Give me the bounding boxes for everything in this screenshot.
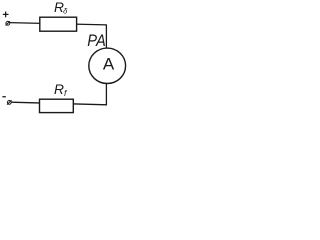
wire right vertical top (corner to ammeter top): [105, 24, 107, 48]
minus sign: [2, 96, 5, 97]
wire top horizontal from + terminal to corner: [10, 23, 107, 25]
svg-text:A: A: [103, 54, 115, 73]
terminal bottom (-) circle with slash: [7, 101, 11, 105]
terminal top (+) circle with slash: [6, 21, 10, 25]
wire right vertical bottom (ammeter bottom to corner): [105, 83, 107, 105]
resistor Rf (bottom box): [40, 99, 74, 112]
plus sign: [3, 13, 9, 15]
ammeter U1 PA circle: [89, 48, 126, 83]
resistor R&#948; (top box): [40, 17, 77, 31]
wire bottom horizontal from corner to - terminal: [11, 102, 107, 105]
svg-text:PA: PA: [87, 32, 106, 50]
